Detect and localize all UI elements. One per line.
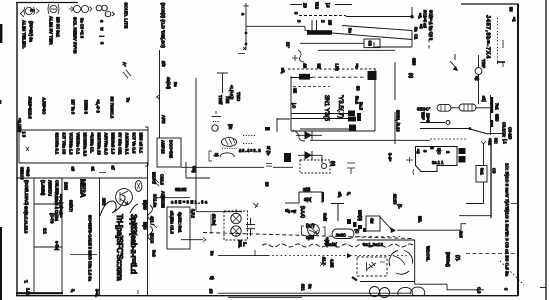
corner bracket xyxy=(277,118,290,132)
IC pin blob right xyxy=(368,71,377,80)
svg-text:3-4=: 3-4= xyxy=(388,153,393,162)
svg-text:≤3,: ≤3, xyxy=(281,68,286,74)
svg-text:T.: T. xyxy=(24,280,29,283)
wire under IC xyxy=(310,139,430,141)
svg-text:9o: 9o xyxy=(173,82,178,87)
solid wire y240 xyxy=(357,239,415,241)
svg-text:3/ (2-: 3/ (2- xyxy=(266,146,271,156)
svg-text:(C-T6: (C-T6 xyxy=(50,213,55,224)
rail y47 xyxy=(374,42,412,47)
dashed bus line y233 xyxy=(203,233,412,239)
pin table outline xyxy=(19,127,148,166)
svg-text:(DC3/L15AC): (DC3/L15AC) xyxy=(24,180,29,206)
svg-text:Sc: Sc xyxy=(348,28,353,34)
svg-text:4a(44): 4a(44) xyxy=(166,77,171,89)
box 5C3 right thick xyxy=(322,192,324,202)
svg-text:Tri-[pa]SFC'Sc:xara: Tri-[pa]SFC'Sc:xara xyxy=(115,214,124,281)
small arrow mark xyxy=(253,203,258,208)
cable slash marks 2 xyxy=(153,224,157,228)
wire at bottom of x196 xyxy=(196,211,242,213)
capacitor C-left xyxy=(246,218,255,236)
svg-text:(C: (C xyxy=(355,229,360,233)
dotted rows xyxy=(243,136,256,144)
svg-text:J457,8b=-7X4: J457,8b=-7X4 xyxy=(485,15,491,59)
svg-text:ALIM TELEC.: ALIM TELEC. xyxy=(22,20,27,49)
svg-text:3V S3a C31: 3V S3a C31 xyxy=(118,133,123,156)
svg-text:AJW=3C: AJW=3C xyxy=(42,98,47,115)
svg-text:(3V=5V) 3a: (3V=5V) 3a xyxy=(29,21,34,43)
svg-text:3(3): 3(3) xyxy=(303,187,311,192)
title block frame xyxy=(16,162,148,295)
connector P2 pin circle 1 xyxy=(231,209,241,224)
svg-text:=3: =3 xyxy=(416,149,421,154)
svg-text:1C: B)1C 9 ra=V 7|A'B)1:3 1 S:: 1C: B)1C 9 ra=V 7|A'B)1:3 1 S:a'B: 3 C3 … xyxy=(504,163,509,277)
wire vertical right of IC xyxy=(394,62,396,144)
bus wire A xyxy=(483,143,485,204)
svg-text:31:: 31: xyxy=(494,138,499,144)
title col2 header texts xyxy=(41,180,60,196)
svg-text:(1.6MM): (1.6MM) xyxy=(41,180,46,196)
wire y203 xyxy=(466,203,484,205)
dotted wire y253 right xyxy=(466,253,517,255)
solid feed wire to arrow xyxy=(346,16,412,18)
svg-text:≤1|: ≤1| xyxy=(482,96,487,102)
module box right xyxy=(416,147,458,172)
svg-text:E(i3: E(i3 xyxy=(143,222,148,230)
IC U1 bottom edge xyxy=(291,130,375,132)
rail wire y50 xyxy=(318,49,395,51)
scan edge mark left dot xyxy=(0,100,1,104)
arrow diagonal xyxy=(450,54,458,71)
svg-text:T10//: T10// xyxy=(218,95,223,105)
capacitor C2 xyxy=(312,20,317,32)
IC pin blob W13L xyxy=(299,74,310,80)
bus wire B xyxy=(490,143,492,218)
svg-text:(7).: (7). xyxy=(456,255,461,261)
svg-text:M323a3 1.3: M323a3 1.3 xyxy=(111,133,116,155)
svg-text:+L(+A)!: +L(+A)! xyxy=(229,85,234,99)
svg-text:3a C3 =1 3: 3a C3 =1 3 xyxy=(80,18,85,39)
switch lever diagonal xyxy=(380,217,391,229)
block AMP box xyxy=(157,138,181,167)
svg-text:£/3: £/3 xyxy=(161,61,166,67)
svg-text:3): 3) xyxy=(214,153,219,157)
svg-text:1C1.3a: 1C1.3a xyxy=(153,194,158,208)
connector pair small symbols xyxy=(96,5,114,17)
module right blobs xyxy=(459,148,466,163)
right riser connecting rails xyxy=(411,31,413,48)
svg-text:3a.1 1: 3a.1 1 xyxy=(432,160,444,165)
svg-text:3|C: 3|C xyxy=(437,148,442,154)
svg-text:|.3: |.3 xyxy=(326,3,331,8)
svg-text:SO=HN'S-OAI:E 3 31V3 C3a 1.3 3: SO=HN'S-OAI:E 3 31V3 C3a 1.3 3a xyxy=(88,215,93,282)
connector E1 symbol xyxy=(20,7,39,17)
svg-text:5a.2: 5a.2 xyxy=(355,96,360,105)
stub tick xyxy=(203,238,206,242)
svg-text:3S3T03a 13: 3S3T03a 13 xyxy=(97,133,102,156)
dotted diagonal bottom right xyxy=(500,261,524,285)
svg-text:7a: 7a xyxy=(126,98,131,103)
svg-text:a3: a3 xyxy=(71,167,76,172)
svg-text:(.1: (.1 xyxy=(503,139,508,145)
svg-text:E: E xyxy=(30,9,35,12)
svg-text:c-7c¦: c-7c¦ xyxy=(55,241,60,250)
IC U1 inner top rule xyxy=(291,77,312,79)
bottom margin tick xyxy=(137,290,139,294)
svg-text:C,3: C,3 xyxy=(477,287,482,294)
svg-text:±3: ±3 xyxy=(303,64,308,69)
long wire y293 xyxy=(218,292,411,294)
riser bottom marks xyxy=(238,47,246,54)
svg-text:MC38%a 3.3: MC38%a 3.3 xyxy=(83,133,88,157)
IC inner wires bottom left xyxy=(291,114,350,130)
svg-text:3a£: 3a£ xyxy=(152,250,157,258)
svg-text:3,: 3, xyxy=(71,289,76,292)
svg-text:£3: £3 xyxy=(209,289,214,294)
crosshair tap xyxy=(331,204,344,222)
connector P2 label bracket xyxy=(210,214,212,234)
cluster L1.7 xyxy=(320,257,335,268)
dashed feed wire xyxy=(299,15,346,17)
switch SW1 box xyxy=(366,216,380,231)
svg-text:≤0,: ≤0, xyxy=(338,192,343,198)
svg-text:3p|tl3(eab-z-r=tLd: 3p|tl3(eab-z-r=tLd xyxy=(129,214,138,274)
svg-text:4y.31□ 3a1: 4y.31□ 3a1 xyxy=(178,212,183,233)
svg-text:3C/3=-1 3a C3 3: 3C/3=-1 3a C3 3 xyxy=(429,10,434,41)
riser top tick xyxy=(244,3,249,6)
pin table column labels xyxy=(55,133,144,157)
svg-text:1 3: 1 3 xyxy=(22,132,27,138)
svg-text:(1.: (1. xyxy=(398,204,403,209)
wire y255 tick xyxy=(254,250,256,256)
svg-text:=a: =a xyxy=(355,64,360,69)
tick near x512 y203 xyxy=(511,203,519,205)
svg-text:a1: a1 xyxy=(91,167,96,172)
motor symbol hatched circle xyxy=(308,224,320,239)
CRT inner arc xyxy=(394,256,405,265)
dotted wire beside J457 xyxy=(497,18,499,66)
diode D2 with wire xyxy=(298,151,322,163)
dashed box circle xyxy=(321,163,326,168)
relay box K1 xyxy=(167,207,190,249)
svg-text:13=3: 13=3 xyxy=(426,113,431,123)
cable loop curl 1 xyxy=(148,205,153,220)
svg-text:3|:: 3|: xyxy=(475,76,480,81)
svg-text:+3a: +3a xyxy=(488,138,493,146)
svg-text:E(M3: E(M3 xyxy=(143,200,148,211)
plus mark xyxy=(292,55,298,61)
svg-text:=V.S3a C1.: =V.S3a C1. xyxy=(90,133,95,154)
rail wire y43 xyxy=(300,42,374,44)
riser junction dots xyxy=(245,32,248,35)
scan edge mark left upper xyxy=(0,24,2,43)
svg-text:3C7 Va C.3: 3C7 Va C.3 xyxy=(132,133,137,155)
wire bottom of box xyxy=(360,281,415,283)
svg-text:(3a/3(: (3a/3( xyxy=(326,242,337,247)
svg-text:3,F.2: 3,F.2 xyxy=(191,209,196,219)
relay box top line xyxy=(155,197,190,199)
svg-text:M7 Ta 3: M7 Ta 3 xyxy=(71,100,76,115)
wire y128 with diagonal xyxy=(420,127,488,134)
svg-text:3a1: 3a1 xyxy=(480,168,485,176)
svg-text:2: 2 xyxy=(321,20,326,23)
svg-text:SH31, /3.13: SH31, /3.13 xyxy=(396,110,401,132)
bracket tick xyxy=(157,95,160,99)
svg-text:W1:C3L: W1:C3L xyxy=(426,246,431,262)
title col2 entries xyxy=(43,213,60,250)
thick supply stub xyxy=(491,97,493,113)
connector T1 symbol xyxy=(48,4,59,14)
dashes above y240 xyxy=(358,236,400,238)
equal pair xyxy=(347,163,355,174)
svg-text:(3): (3) xyxy=(409,73,414,79)
svg-text:3E3: 3E3 xyxy=(495,114,500,122)
svg-text:'Y3.5(.7): 'Y3.5(.7) xyxy=(337,95,344,118)
CRT circle big broken xyxy=(389,251,412,275)
vertical wire x415 xyxy=(414,240,416,284)
svg-text:J015=S10.3: J015=S10.3 xyxy=(28,97,33,120)
svg-text:L5u: L5u xyxy=(335,64,340,72)
wire y255 solid xyxy=(218,255,268,257)
signature scribble xyxy=(100,195,138,216)
svg-text:Z3: Z3 xyxy=(303,3,308,9)
svg-text:£11: £11 xyxy=(301,284,306,291)
svg-text:3a1.3a13: 3a1.3a13 xyxy=(363,242,384,247)
box corner C3 top xyxy=(186,162,210,178)
svg-text:ME3A: ME3A xyxy=(79,179,86,197)
arrow drop wire xyxy=(410,7,413,18)
small node circle xyxy=(212,125,218,131)
switch wire step up xyxy=(461,224,466,231)
svg-text:±3.4×3.3: ±3.4×3.3 xyxy=(239,148,261,153)
svg-text:3a/5: 3a/5 xyxy=(323,213,328,222)
misc right of IC marks xyxy=(338,153,414,198)
border frame left xyxy=(16,2,18,296)
svg-text:3(4(: 3(4( xyxy=(304,197,312,202)
wire with node circle xyxy=(475,55,482,104)
wire label L11.3a xyxy=(297,284,314,293)
dashed row above module xyxy=(430,138,468,140)
svg-text:TBF: TBF xyxy=(481,59,486,68)
wire y255 dotted xyxy=(268,255,348,257)
svg-text:C1: C1 xyxy=(414,34,419,40)
pin table left tick xyxy=(26,147,29,151)
wire y133 xyxy=(488,133,504,135)
pin table sub labels xyxy=(20,166,116,181)
svg-text:7a1: 7a1 xyxy=(495,103,500,111)
IC bottom pin blobs xyxy=(348,111,361,131)
svg-text:3|\2/: 3|\2/ xyxy=(306,235,315,240)
svg-text:=1,-P 3: =1,-P 3 xyxy=(96,100,101,114)
svg-text:S: S xyxy=(430,147,435,150)
svg-text:C13.3: C13.3 xyxy=(160,174,165,186)
wire into 5C3 xyxy=(285,202,299,204)
svg-text:C3: C3 xyxy=(492,168,497,174)
IC U1 top dashed edge with pin texts xyxy=(288,64,375,72)
wire y122 with ring xyxy=(420,121,450,125)
svg-text:A°: A° xyxy=(122,62,127,67)
svg-text:3E3C': 3E3C' xyxy=(417,107,431,112)
svg-text:A1C33a 3.1: A1C33a 3.1 xyxy=(125,133,130,156)
svg-text:VC7S3a 1.3: VC7S3a 1.3 xyxy=(69,133,74,156)
svg-text:=3a0: =3a0 xyxy=(26,167,31,177)
vertical wire x490 xyxy=(490,95,492,135)
IC U1 left edge xyxy=(290,76,292,131)
capacitor C4 xyxy=(212,111,222,122)
lower rail wire xyxy=(332,33,412,40)
svg-text:ALIM 3V TER: ALIM 3V TER xyxy=(49,16,54,45)
svg-text:3J7 V3a C3: 3J7 V3a C3 xyxy=(62,133,67,155)
mid rail wire xyxy=(246,25,305,27)
transistor Q-title circle xyxy=(116,189,133,206)
svg-text:(E:: (E: xyxy=(228,124,233,129)
squiggle to wire xyxy=(293,130,305,141)
oval box 3a3C xyxy=(332,229,354,239)
svg-text:83/X7:: 83/X7: xyxy=(69,200,74,212)
dark mark xyxy=(265,127,270,131)
svg-text:333.: 333. xyxy=(238,240,243,248)
arrow end of dotted xyxy=(347,253,352,258)
top rail segment a xyxy=(290,4,302,6)
svg-text:AMP13: AMP13 xyxy=(161,140,166,154)
wire horizontal from AMP xyxy=(181,166,264,168)
svg-text:25: 25 xyxy=(328,20,333,26)
border frame right xyxy=(517,4,519,296)
bus top ticks xyxy=(481,138,508,146)
bracket left xyxy=(209,151,212,161)
diode D1 with wire xyxy=(296,131,322,140)
svg-text:1.F:: 1.F: xyxy=(26,288,31,295)
squiggle Sg xyxy=(298,50,304,62)
svg-text:13M: 13M xyxy=(64,182,69,191)
svg-text:|.C: |.C xyxy=(292,103,297,108)
svg-text:V05J3a C.1: V05J3a C.1 xyxy=(76,133,81,155)
title col3 texts xyxy=(54,179,93,282)
svg-text:=3.: =3. xyxy=(418,13,423,19)
svg-text:3a3C: 3a3C xyxy=(336,233,346,238)
border frame top-right segment xyxy=(461,3,519,5)
junction marks A// xyxy=(122,62,131,78)
wire y284 xyxy=(415,283,447,285)
wire vertical left bus xyxy=(159,50,161,138)
svg-text:C3.1C3:: C3.1C3: xyxy=(502,122,507,137)
svg-text:3E3: 3E3 xyxy=(412,58,417,66)
wire y215 long xyxy=(459,215,491,217)
svg-text:£1:23: £1:23 xyxy=(393,194,398,205)
svg-text:a7: a7 xyxy=(111,166,116,171)
svg-text:3E:3E: 3E:3E xyxy=(175,187,187,192)
wire vertical mid xyxy=(195,78,197,211)
svg-text:S1C83a 3.1: S1C83a 3.1 xyxy=(55,133,60,155)
svg-text:E1C3: E1C3 xyxy=(150,233,155,244)
svg-text:28H: 28H xyxy=(102,198,107,206)
svg-text:23: 23 xyxy=(265,182,270,187)
adjacent page edge line xyxy=(545,0,547,300)
connector P2 dashed box xyxy=(224,211,248,240)
svg-text:(1,2,1): (1,2,1) xyxy=(301,206,306,218)
svg-text:3a: 3a xyxy=(308,284,313,289)
cable slash marks xyxy=(154,178,159,186)
svg-text:(3W3a(): (3W3a() xyxy=(446,252,451,267)
component box C3 on rail xyxy=(364,39,380,48)
second wire y297 xyxy=(228,296,302,298)
svg-text:3): 3) xyxy=(210,276,215,280)
blob corner xyxy=(352,277,357,281)
svg-text:(3C3(3) (C.D 'DE(.3C): (3C3(3) (C.D 'DE(.3C) xyxy=(160,3,165,49)
svg-text:AWNTA!: AWNTA! xyxy=(48,180,53,196)
svg-text:=:=a| 6|=a3=: =:=a| 6|=a3= xyxy=(58,194,63,218)
capacitor junction T xyxy=(217,73,228,93)
svg-text:W.3: W.3 xyxy=(315,2,320,10)
cable loop curl 2 xyxy=(148,226,153,240)
svg-text:K3R0 3: K3R0 3 xyxy=(84,100,89,115)
top rail segment b xyxy=(335,4,352,6)
svg-text:4.3E: 4.3E xyxy=(330,259,335,268)
svg-text:3a3: 3a3 xyxy=(459,231,464,239)
svg-text:3E: 3E xyxy=(317,64,322,69)
svg-text:3=3.: 3=3. xyxy=(95,289,100,297)
bus label box 3a1 xyxy=(476,166,487,183)
svg-text:3N1 Y3(5: 3N1 Y3(5 xyxy=(323,95,330,122)
svg-text:3a: 3a xyxy=(414,27,419,32)
wire break mark xyxy=(266,164,272,167)
arc ellipse below xyxy=(220,153,234,157)
svg-text:53: 53 xyxy=(356,86,361,91)
IC U1 right edge xyxy=(374,68,376,131)
riser wire xyxy=(245,7,247,50)
svg-text:≤3.E3a C1.3: ≤3.E3a C1.3 xyxy=(170,211,175,234)
svg-text:④3|8.C.℅.15.3: ④3|8.C.℅.15.3 xyxy=(24,206,29,234)
connector P2 pin circle 2 xyxy=(231,226,241,237)
flyback circles xyxy=(370,287,425,298)
svg-text:M33 a3 3.1: M33 a3 3.1 xyxy=(139,133,144,154)
svg-text:W3*: W3* xyxy=(421,112,426,120)
box 5C3 open bottom xyxy=(299,192,322,203)
svg-text:C3: C3 xyxy=(368,41,373,47)
scribble streak xyxy=(347,219,366,232)
dashed box small xyxy=(300,160,330,173)
deflection box marks xyxy=(366,262,385,271)
svg-text:3,: 3, xyxy=(347,192,352,195)
adjacent page tick xyxy=(540,287,546,289)
border frame bottom xyxy=(16,295,518,297)
title block bottom thick rule xyxy=(16,292,63,294)
svg-text:A3V70a 3.C: A3V70a 3.C xyxy=(104,133,109,155)
stub wire left xyxy=(181,239,203,241)
border frame top-left segment xyxy=(16,2,78,4)
motor brackets xyxy=(302,226,326,236)
svg-text:1:1: 1:1 xyxy=(43,228,48,235)
IC inner dashed row xyxy=(293,86,330,88)
svg-text:a3E=3E1.3a: a3E=3E1.3a xyxy=(171,200,209,205)
svg-text:£3.3a¦: £3.3a¦ xyxy=(212,214,217,225)
svg-text:4w: 4w xyxy=(370,218,375,224)
svg-text:A3)313M: A3)313M xyxy=(161,191,166,208)
tick pair right xyxy=(502,40,504,67)
svg-text:a w | 3: a w | 3 xyxy=(100,20,105,46)
dashed vertical right xyxy=(428,15,430,50)
svg-text:DOC=DM: DOC=DM xyxy=(169,140,174,158)
svg-text:M3.: M3. xyxy=(418,216,423,223)
svg-text:M3 3C 3a1: M3 3C 3a1 xyxy=(56,17,61,38)
svg-text:411 /: 411 / xyxy=(150,216,155,226)
svg-text:(3): (3) xyxy=(331,161,336,167)
switch wire long xyxy=(397,229,461,231)
wire step y290 xyxy=(447,284,484,290)
connector O1 symbol xyxy=(69,5,92,12)
svg-text:TMO: TMO xyxy=(236,92,241,102)
svg-text:M3(3): M3(3) xyxy=(358,210,363,221)
